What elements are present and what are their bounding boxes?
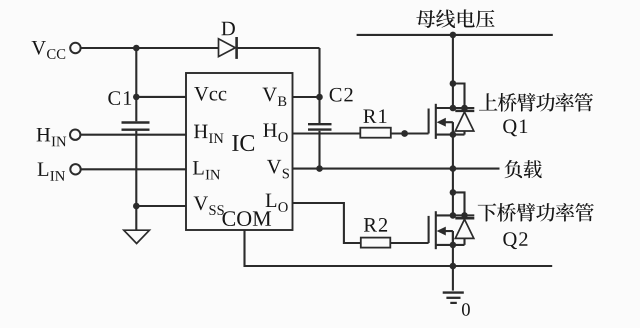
wire R2 to Q2 gate <box>390 242 428 244</box>
junction Q1 drain <box>450 105 457 112</box>
junction C2 bottom / V_S <box>316 165 323 172</box>
wire main column: Q1 source region to Q2 drain <box>452 122 454 215</box>
junction bus / half-bridge column <box>450 32 457 39</box>
wire from diode cathode to V_B column <box>237 47 320 49</box>
label C2 <box>330 88 353 102</box>
ground triangle (signal ground) <box>124 230 150 243</box>
wire H_IN to IC (crosses C1 lead) <box>80 134 186 136</box>
wire IC H_O pin to R1 <box>293 132 361 134</box>
wire C2 upper lead <box>318 97 320 123</box>
wire C1 column lower (C1 bottom plate to ground triangle) <box>135 131 137 230</box>
wire main column: Q2 source region to earth ground <box>452 231 454 291</box>
transistor Q2 <box>429 192 475 249</box>
junction Q2 diode branch <box>450 189 457 196</box>
transistor Q1 <box>429 84 475 139</box>
junction Vcc pin node <box>133 94 140 101</box>
label IC <box>232 135 254 151</box>
diode D <box>219 37 237 59</box>
junction Q2 body diode cathode <box>461 212 468 219</box>
wire DC bus rail <box>357 34 553 36</box>
capacitor C1 <box>122 123 150 130</box>
wire IC L_O pin to R2 <box>293 203 361 243</box>
label pin V_S <box>267 160 289 178</box>
wire C2 lower lead to V_S row (crosses H_O wire) <box>318 131 320 169</box>
junction ground rail / main column <box>450 263 457 270</box>
label Q1 <box>503 119 527 136</box>
junction V_SS node <box>133 203 140 210</box>
capacitor C2 <box>308 124 332 129</box>
label pin H_IN <box>194 125 223 143</box>
label C1 <box>108 91 131 105</box>
wire V_SS pin to IC <box>136 205 186 207</box>
junction Q1 diode branch <box>450 80 457 87</box>
label R1 <box>363 109 386 123</box>
label bus voltage 母线电压 <box>416 9 494 28</box>
junction C1 column / Vcc rail <box>133 45 140 52</box>
label pin L_O <box>266 194 288 212</box>
label upper arm power transistor 上桥臂功率管 <box>479 93 593 112</box>
label load 负载 <box>505 160 542 178</box>
wire Vcc rail from V_CC terminal to diode anode <box>81 47 219 49</box>
label Q2 <box>503 232 527 249</box>
wire main column: bus to Q1 drain <box>452 35 454 108</box>
wire C1 column upper (Vcc rail to C1 top plate) <box>135 48 137 121</box>
junction Q1 body diode cathode <box>461 105 468 112</box>
label pin COM <box>223 211 272 226</box>
label L_IN <box>38 162 65 180</box>
label pin V_B <box>263 88 287 106</box>
wire V_B column vertical (diode to V_B node) <box>318 48 320 97</box>
label pin L_IN <box>193 161 220 179</box>
junction Q1 source <box>450 131 457 138</box>
wire R1 to Q1 gate <box>391 132 429 134</box>
label pin V_SS <box>194 196 224 214</box>
terminal V_CC <box>70 43 80 53</box>
junction dot on R1 gate wire <box>401 130 408 137</box>
terminal L_IN <box>70 164 80 174</box>
junction load node on main column <box>450 165 457 172</box>
label V_CC <box>32 41 66 59</box>
junction Q2 source <box>450 242 457 249</box>
terminal H_IN <box>70 130 80 140</box>
wire IC V_B pin to C2 top node <box>293 96 320 98</box>
label node 0 <box>462 303 470 315</box>
label pin Vcc <box>194 87 226 101</box>
driver IC box <box>186 73 293 230</box>
junction V_B / C2 top <box>316 94 323 101</box>
label R2 <box>364 218 387 232</box>
label D <box>221 22 234 35</box>
junction Q2 drain <box>450 212 457 219</box>
label pin H_O <box>263 123 287 141</box>
wire V_S row (IC to load label) <box>293 168 500 170</box>
wire Vcc pin to IC <box>136 96 186 98</box>
wire COM pin down and along ground rail <box>245 230 553 266</box>
label lower arm power transistor 下桥臂功率管 <box>478 203 594 222</box>
wire L_IN to IC (crosses C1 lead) <box>81 168 186 170</box>
resistor R1 <box>360 128 391 138</box>
label H_IN <box>37 128 67 146</box>
resistor R2 <box>361 238 391 248</box>
earth ground symbol (node 0) <box>443 293 464 303</box>
